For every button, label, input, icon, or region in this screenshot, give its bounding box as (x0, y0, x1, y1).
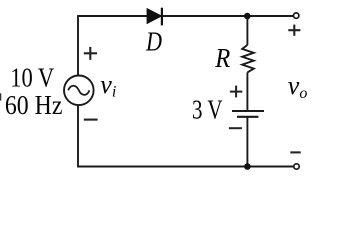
AC source sine wave (68, 86, 89, 95)
svg-text:3 V: 3 V (192, 95, 223, 125)
battery minus sign (229, 127, 242, 129)
svg-text:10 V: 10 V (10, 63, 54, 93)
wire top rail (78, 15, 293, 17)
source plus sign (84, 47, 97, 60)
battery 3V top plate (long) (232, 110, 264, 112)
source minus sign (84, 119, 98, 121)
left edge artifact tick (0, 93, 2, 100)
AC source V1 circle (64, 76, 94, 106)
output minus sign (290, 151, 300, 153)
svg-text:D: D (145, 27, 162, 57)
output terminal bottom (open circle) (294, 164, 299, 169)
junction node bottom (244, 163, 251, 170)
junction node top (244, 13, 251, 20)
resistor R zigzag (242, 45, 254, 72)
wire resistor to battery lead (246, 72, 248, 111)
wire left rail lower (77, 105, 79, 167)
wire bottom rail (77, 166, 294, 168)
output plus sign (288, 25, 300, 36)
svg-text:R: R (214, 43, 230, 73)
wire left rail upper (77, 15, 79, 76)
diode D (147, 8, 162, 26)
svg-text:60 Hz: 60 Hz (5, 90, 63, 120)
wire right branch upper lead (246, 16, 248, 45)
output terminal top (open circle) (294, 13, 299, 18)
wire battery to bottom rail lead (246, 117, 248, 167)
battery plus sign (230, 86, 242, 98)
battery 3V bottom plate (short) (237, 116, 258, 118)
